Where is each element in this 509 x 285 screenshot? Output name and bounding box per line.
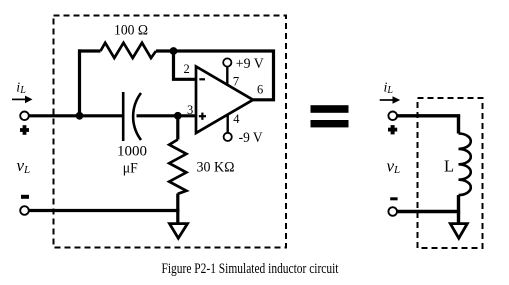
svg-text:L: L <box>444 157 454 176</box>
svg-text:30 KΩ: 30 KΩ <box>197 160 235 176</box>
svg-text:100 Ω: 100 Ω <box>114 23 148 39</box>
svg-text:4: 4 <box>233 112 240 126</box>
svg-text:+9 V: +9 V <box>236 56 264 72</box>
svg-text:6: 6 <box>257 83 263 97</box>
svg-text:Figure P2-1 Simulated inductor: Figure P2-1 Simulated inductor circuit <box>162 261 339 277</box>
svg-text:2: 2 <box>184 62 190 76</box>
svg-text:7: 7 <box>233 74 239 88</box>
svg-text:-9 V: -9 V <box>239 130 263 146</box>
svg-text:μF: μF <box>123 161 138 177</box>
svg-text:1000: 1000 <box>117 144 147 160</box>
svg-text:3: 3 <box>187 103 193 117</box>
